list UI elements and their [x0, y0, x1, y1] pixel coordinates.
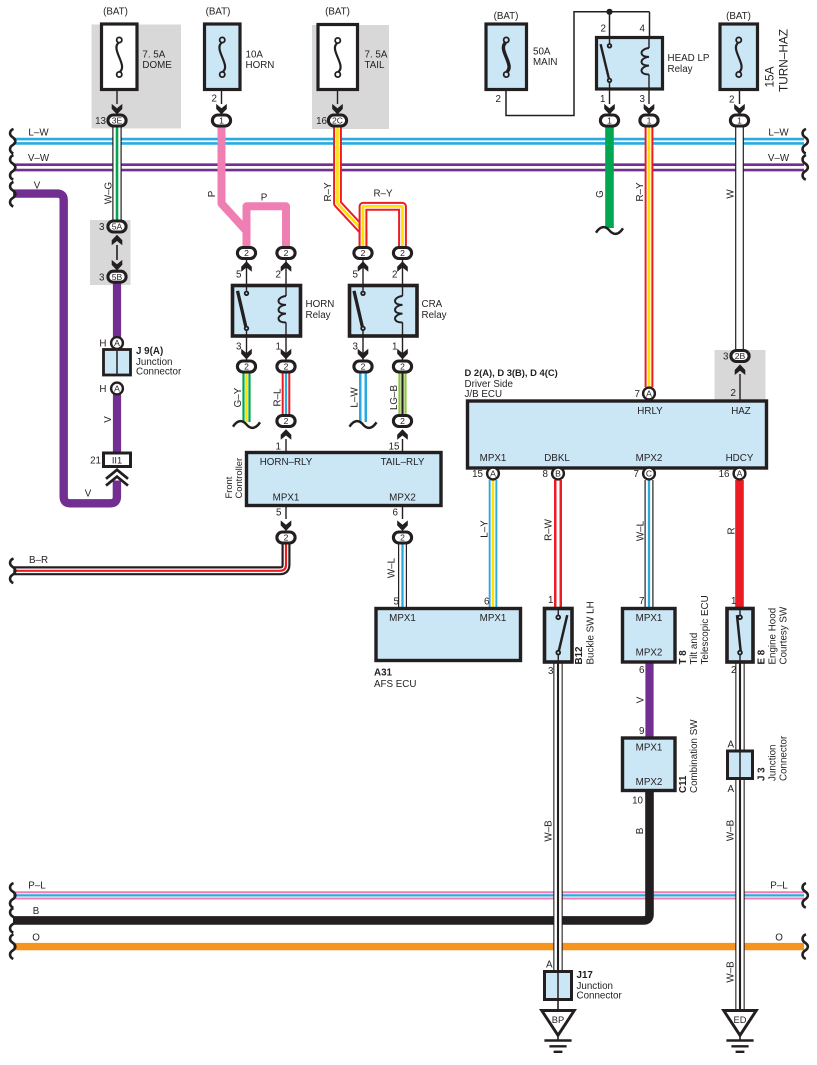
svg-text:6: 6 — [484, 597, 490, 608]
svg-text:II1: II1 — [112, 455, 122, 465]
svg-text:L–W: L–W — [350, 387, 361, 408]
svg-text:T 8: T 8 — [678, 650, 689, 665]
svg-text:L–W: L–W — [768, 127, 789, 138]
svg-text:J/B ECU: J/B ECU — [465, 389, 503, 400]
svg-text:3E: 3E — [112, 116, 123, 126]
svg-text:4: 4 — [640, 24, 646, 35]
svg-text:9: 9 — [639, 726, 644, 737]
svg-text:5: 5 — [236, 270, 242, 281]
svg-text:3: 3 — [548, 666, 554, 677]
svg-text:6: 6 — [639, 665, 645, 676]
svg-text:B: B — [33, 906, 40, 917]
svg-text:E 8: E 8 — [757, 649, 768, 664]
svg-text:W–B: W–B — [726, 819, 737, 841]
svg-text:1: 1 — [731, 596, 736, 607]
svg-text:ED: ED — [734, 1015, 747, 1025]
svg-text:D 2(A), D 3(B), D 4(C): D 2(A), D 3(B), D 4(C) — [465, 367, 558, 378]
svg-text:15: 15 — [472, 469, 483, 480]
svg-text:Connector: Connector — [136, 367, 182, 378]
svg-text:3: 3 — [353, 342, 359, 353]
svg-text:B: B — [555, 469, 561, 479]
svg-text:G–Y: G–Y — [233, 387, 244, 407]
svg-text:2B: 2B — [735, 351, 746, 361]
svg-text:A: A — [727, 739, 734, 750]
svg-text:TAIL: TAIL — [365, 60, 386, 71]
svg-text:BP: BP — [552, 1015, 564, 1025]
svg-text:HDCY: HDCY — [726, 453, 754, 464]
svg-text:MPX1: MPX1 — [273, 492, 300, 503]
svg-text:16: 16 — [316, 116, 327, 127]
svg-text:Relay: Relay — [668, 64, 693, 75]
svg-text:13: 13 — [95, 116, 106, 127]
svg-text:Junction: Junction — [768, 745, 779, 782]
svg-text:R–Y: R–Y — [373, 189, 393, 200]
svg-text:Courtesy SW: Courtesy SW — [779, 606, 790, 664]
svg-text:V: V — [636, 696, 647, 703]
svg-text:2: 2 — [361, 248, 366, 258]
svg-text:1: 1 — [607, 116, 612, 126]
svg-text:A: A — [546, 960, 553, 971]
svg-text:2: 2 — [284, 416, 289, 426]
svg-text:MPX1: MPX1 — [480, 613, 507, 624]
svg-text:MPX2: MPX2 — [636, 453, 663, 464]
svg-text:W–L: W–L — [636, 520, 647, 541]
svg-text:2: 2 — [731, 388, 736, 399]
svg-text:10: 10 — [632, 796, 643, 807]
svg-text:B: B — [635, 827, 646, 834]
svg-text:Relay: Relay — [422, 310, 447, 321]
svg-text:HORN–RLY: HORN–RLY — [260, 457, 313, 468]
svg-text:(BAT): (BAT) — [206, 7, 231, 18]
svg-text:MPX1: MPX1 — [480, 453, 507, 464]
svg-text:7. 5A: 7. 5A — [365, 50, 388, 61]
svg-text:2: 2 — [284, 248, 289, 258]
svg-text:2: 2 — [400, 362, 405, 372]
svg-text:Buckle SW LH: Buckle SW LH — [586, 601, 597, 664]
svg-text:2: 2 — [276, 270, 281, 281]
svg-text:B–R: B–R — [29, 555, 48, 566]
svg-text:H: H — [99, 384, 106, 395]
svg-text:DBKL: DBKL — [544, 453, 570, 464]
svg-text:V: V — [85, 489, 92, 500]
svg-text:15A: 15A — [763, 66, 777, 87]
svg-text:2: 2 — [400, 248, 405, 258]
svg-text:6: 6 — [393, 508, 399, 519]
svg-text:A: A — [490, 469, 496, 479]
svg-text:5: 5 — [276, 508, 282, 519]
svg-text:5: 5 — [353, 270, 359, 281]
svg-text:Relay: Relay — [306, 310, 331, 321]
svg-text:W–L: W–L — [387, 557, 398, 578]
svg-text:AFS ECU: AFS ECU — [374, 679, 416, 690]
svg-text:R–L: R–L — [273, 388, 284, 407]
svg-text:A: A — [114, 384, 120, 394]
svg-text:W–G: W–G — [104, 182, 115, 204]
svg-text:2: 2 — [601, 24, 606, 35]
svg-text:1: 1 — [737, 116, 742, 126]
svg-text:V: V — [103, 416, 114, 423]
svg-text:W–B: W–B — [726, 961, 737, 983]
svg-text:1: 1 — [548, 595, 553, 606]
svg-text:2: 2 — [729, 95, 734, 106]
svg-text:J 3: J 3 — [757, 767, 768, 781]
svg-text:2: 2 — [400, 416, 405, 426]
svg-text:B12: B12 — [574, 646, 585, 665]
svg-text:HRLY: HRLY — [637, 406, 663, 417]
svg-text:Tilt and: Tilt and — [689, 633, 700, 665]
svg-text:MPX2: MPX2 — [389, 492, 416, 503]
svg-text:P–L: P–L — [28, 881, 46, 892]
svg-text:A: A — [737, 469, 743, 479]
svg-text:P: P — [261, 193, 268, 204]
svg-text:3: 3 — [236, 342, 242, 353]
svg-text:3: 3 — [99, 272, 105, 283]
svg-text:2: 2 — [731, 665, 736, 676]
svg-text:7. 5A: 7. 5A — [142, 50, 165, 61]
svg-text:Combination SW: Combination SW — [689, 719, 700, 793]
svg-text:(BAT): (BAT) — [103, 7, 128, 18]
svg-text:3: 3 — [723, 352, 729, 363]
svg-text:O: O — [32, 933, 40, 944]
svg-text:O: O — [775, 933, 783, 944]
svg-text:MPX1: MPX1 — [636, 743, 663, 754]
svg-text:HEAD LP: HEAD LP — [668, 53, 710, 64]
svg-text:(BAT): (BAT) — [494, 11, 519, 22]
svg-text:Engine Hood: Engine Hood — [768, 608, 779, 665]
svg-text:5: 5 — [394, 597, 400, 608]
svg-text:A: A — [114, 338, 120, 348]
svg-text:HAZ: HAZ — [731, 406, 751, 417]
svg-text:C11: C11 — [678, 775, 689, 793]
svg-text:R: R — [727, 527, 738, 534]
svg-text:MPX2: MPX2 — [636, 648, 663, 659]
svg-text:2: 2 — [392, 270, 397, 281]
svg-text:Controller: Controller — [233, 458, 244, 499]
svg-text:Telescopic ECU: Telescopic ECU — [700, 595, 711, 664]
svg-text:16: 16 — [719, 469, 730, 480]
svg-text:3: 3 — [640, 94, 646, 105]
svg-text:2: 2 — [244, 362, 249, 372]
svg-text:V: V — [34, 181, 41, 192]
svg-text:L–W: L–W — [28, 127, 49, 138]
svg-text:2: 2 — [361, 362, 366, 372]
svg-text:W–B: W–B — [544, 820, 555, 842]
svg-text:1: 1 — [647, 116, 652, 126]
svg-text:V–W: V–W — [28, 153, 50, 164]
svg-text:TAIL–RLY: TAIL–RLY — [381, 457, 425, 468]
svg-text:C: C — [646, 469, 652, 479]
svg-text:21: 21 — [90, 456, 101, 467]
svg-text:2: 2 — [284, 362, 289, 372]
svg-text:7: 7 — [634, 469, 639, 480]
svg-text:1: 1 — [600, 94, 605, 105]
svg-text:Connector: Connector — [577, 991, 623, 1002]
svg-text:2: 2 — [212, 94, 217, 105]
svg-text:2: 2 — [244, 248, 249, 258]
svg-text:2: 2 — [284, 533, 289, 543]
svg-text:R–W: R–W — [544, 518, 555, 541]
svg-text:10A: 10A — [246, 50, 264, 61]
svg-text:MPX1: MPX1 — [636, 613, 663, 624]
svg-text:MPX2: MPX2 — [636, 777, 663, 788]
svg-text:(BAT): (BAT) — [726, 11, 751, 22]
svg-text:5B: 5B — [112, 272, 123, 282]
svg-text:L–Y: L–Y — [480, 520, 491, 538]
svg-text:H: H — [99, 339, 106, 350]
svg-text:1: 1 — [276, 342, 281, 353]
svg-text:A: A — [646, 389, 652, 399]
svg-text:TURN–HAZ: TURN–HAZ — [777, 29, 791, 92]
svg-text:R–Y: R–Y — [323, 182, 334, 202]
svg-text:P: P — [207, 190, 218, 197]
svg-text:CRA: CRA — [422, 299, 443, 310]
svg-text:Driver Side: Driver Side — [465, 379, 514, 390]
svg-text:LG–B: LG–B — [389, 385, 400, 411]
svg-text:7: 7 — [639, 596, 644, 607]
svg-text:MAIN: MAIN — [533, 57, 558, 68]
svg-text:W: W — [726, 189, 737, 199]
svg-text:V–W: V–W — [768, 153, 790, 164]
svg-text:P–L: P–L — [770, 881, 788, 892]
svg-text:7: 7 — [635, 389, 640, 400]
svg-text:1: 1 — [392, 342, 397, 353]
svg-text:1: 1 — [219, 116, 224, 126]
svg-text:J17: J17 — [577, 970, 594, 981]
svg-text:Connector: Connector — [779, 735, 790, 781]
svg-text:A31: A31 — [374, 667, 393, 678]
svg-text:2: 2 — [496, 94, 501, 105]
svg-text:(BAT): (BAT) — [325, 7, 350, 18]
svg-text:DOME: DOME — [142, 60, 172, 71]
svg-text:HORN: HORN — [306, 299, 335, 310]
svg-text:A: A — [727, 784, 734, 795]
svg-text:50A: 50A — [533, 47, 551, 58]
svg-text:R–Y: R–Y — [635, 182, 646, 202]
svg-text:MPX1: MPX1 — [389, 613, 416, 624]
svg-text:J 9(A): J 9(A) — [136, 346, 163, 357]
svg-text:8: 8 — [543, 469, 549, 480]
svg-text:HORN: HORN — [246, 60, 275, 71]
svg-text:3: 3 — [99, 222, 105, 233]
svg-text:2: 2 — [400, 533, 405, 543]
svg-text:5A: 5A — [112, 222, 123, 232]
svg-text:2C: 2C — [332, 116, 343, 126]
svg-text:G: G — [595, 190, 606, 198]
